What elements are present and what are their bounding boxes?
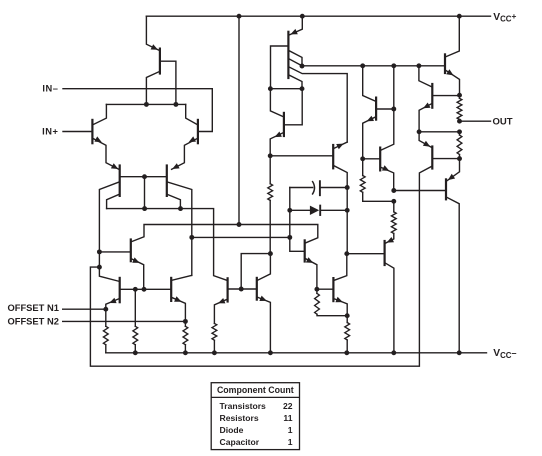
- node J20: [268, 251, 273, 256]
- wire Q1 emitter: [93, 138, 119, 169]
- wire Q17 base: [363, 158, 379, 160]
- wire VCC+ rail: [146, 15, 490, 17]
- wire OUT lead: [460, 120, 491, 122]
- wire Q20 collector loop: [90, 167, 431, 367]
- resistor R4: [212, 323, 217, 352]
- emitter arrow Q17: [382, 165, 389, 171]
- wire Q3-Q4 base tie: [121, 176, 166, 178]
- emitter arrow Q8: [151, 44, 158, 50]
- resistor R10: [457, 132, 462, 159]
- wire Q22 collector: [386, 263, 394, 353]
- wire Q7 collector: [132, 225, 318, 243]
- wire cap column: [290, 188, 304, 252]
- node J38: [457, 119, 462, 124]
- capacitor C1: [312, 181, 320, 195]
- svg-text:VCC–: VCC–: [493, 348, 516, 360]
- node J13: [268, 86, 273, 91]
- node J23: [345, 208, 350, 213]
- emitter arrow Q18: [423, 103, 430, 109]
- transistor Q22: [384, 241, 386, 265]
- wire Q22 base: [347, 253, 384, 255]
- node J18: [416, 63, 421, 68]
- emitter arrow Q11: [259, 296, 266, 301]
- node J25: [300, 14, 305, 19]
- wire VCC+ drop: [238, 16, 240, 224]
- node J9: [142, 287, 147, 292]
- wire Q8 emitter: [146, 16, 159, 50]
- wire base drop: [144, 177, 146, 209]
- wire Q12 emitter: [270, 133, 283, 156]
- wire Q7 emitter: [132, 259, 144, 289]
- emitter arrow Q1: [94, 136, 101, 142]
- wire Q3 collector: [99, 182, 118, 267]
- wire Q18 collector: [419, 66, 431, 87]
- wire Q16 base: [377, 108, 394, 110]
- node J5: [178, 206, 183, 211]
- node J47: [391, 350, 396, 355]
- node J31: [344, 251, 349, 256]
- transistor Q11: [256, 278, 258, 300]
- wire bias tie: [241, 254, 270, 289]
- wire Q4 base lead: [168, 195, 181, 209]
- node J19: [268, 153, 273, 158]
- wire D1 anode lead: [290, 209, 310, 211]
- resistor R2: [183, 321, 188, 352]
- emitter arrow Q21: [448, 174, 455, 180]
- wire C1 left lead: [290, 187, 313, 189]
- emitter arrow Q9: [290, 29, 297, 35]
- node J40: [417, 129, 422, 134]
- resistor R1: [103, 309, 108, 353]
- wire Q3 base lead: [107, 195, 119, 209]
- emitter arrow Q13: [336, 144, 343, 150]
- diode D1: [310, 206, 320, 215]
- wire Q8 collector: [146, 72, 159, 105]
- transistor Q4: [166, 166, 168, 196]
- node J3: [142, 174, 147, 179]
- wire Q16 emitter: [363, 117, 375, 159]
- wire Q13 emitter: [334, 142, 347, 148]
- node J28: [189, 235, 194, 240]
- node J7: [97, 265, 102, 270]
- wire Q20 base: [433, 158, 459, 160]
- node OUT label: [493, 116, 513, 127]
- wire Q10 emitter: [214, 300, 226, 324]
- transistor Q15: [332, 278, 334, 301]
- svg-text:VCC+: VCC+: [493, 11, 516, 23]
- node J43: [183, 350, 188, 355]
- node J26: [457, 14, 462, 19]
- wire Q19 collector: [446, 16, 459, 56]
- node J21: [345, 185, 350, 190]
- wire D1 cathode lead: [320, 209, 347, 211]
- svg-text:OFFSET N2: OFFSET N2: [8, 316, 59, 326]
- wire Q9 collector 4: [290, 75, 303, 88]
- transistor Q1: [91, 120, 93, 143]
- power VCC+ label: [493, 11, 516, 23]
- node J22: [287, 208, 292, 213]
- transistor Q19: [444, 54, 446, 73]
- wire mid column: [346, 188, 348, 254]
- node J44: [212, 350, 217, 355]
- transistor Q17: [379, 148, 381, 171]
- wire J13-J14: [270, 88, 302, 90]
- wire Q12 base: [285, 89, 302, 125]
- wire Q21 base: [394, 190, 445, 192]
- emitter arrow Q10: [218, 298, 225, 303]
- svg-text:IN–: IN–: [42, 84, 58, 94]
- node J37: [457, 93, 462, 98]
- wire Q17 emitter: [381, 168, 393, 191]
- wire C1 right lead: [321, 187, 347, 189]
- wire Q9 emitter: [290, 16, 303, 35]
- transistor Q5: [119, 278, 121, 302]
- transistor Q9: [287, 32, 289, 78]
- node J48: [457, 350, 462, 355]
- svg-text:Capacitor: Capacitor: [220, 437, 260, 447]
- wire Q9 collector 2: [290, 59, 303, 66]
- wire Q1 collector: [93, 104, 107, 124]
- emitter arrow Q14: [306, 257, 313, 263]
- wire Q2 collector: [186, 104, 198, 124]
- emitter arrow Q6: [174, 296, 181, 301]
- wire IN+ lead: [63, 131, 91, 133]
- wire VCC- rail: [106, 352, 487, 354]
- wire Q9 collector 1: [290, 51, 303, 66]
- wire Q11 collector: [258, 254, 271, 281]
- emitter arrow Q12: [275, 132, 282, 138]
- wire Q8 base: [161, 61, 176, 104]
- node J15: [300, 64, 305, 69]
- node J39: [457, 129, 462, 134]
- node J27: [237, 222, 242, 227]
- table component count: [211, 383, 299, 450]
- transistor Q2: [197, 120, 199, 143]
- node J30: [314, 287, 319, 292]
- node J12: [239, 287, 244, 292]
- wire Q15 emitter: [335, 299, 348, 316]
- node J33: [391, 107, 396, 112]
- node J6: [97, 249, 102, 254]
- wire Q18 base: [433, 95, 459, 97]
- node J32: [345, 313, 350, 318]
- transistor Q7: [130, 240, 132, 262]
- node OFFSET N1 label: [8, 303, 59, 313]
- resistor R8: [360, 159, 394, 202]
- node IN- label: [42, 84, 58, 94]
- svg-text:Resistors: Resistors: [220, 413, 259, 423]
- transistor Q6: [170, 278, 172, 301]
- wire Q21 emitter: [447, 159, 459, 181]
- transistor Q18: [431, 84, 433, 108]
- wire Q2 emitter: [172, 138, 198, 169]
- wire Q7 base: [99, 251, 129, 253]
- wire Q16 collector: [363, 66, 375, 101]
- transistor Q13: [332, 145, 334, 168]
- wire Q6 collector: [172, 275, 192, 280]
- svg-text:22: 22: [283, 401, 293, 411]
- wire bias line: [302, 65, 444, 67]
- wire Q18 emitter: [419, 104, 431, 132]
- node IN+ label: [42, 126, 58, 136]
- resistor R7: [315, 289, 348, 316]
- emitter arrow Q5: [109, 298, 116, 303]
- node J24: [237, 14, 242, 19]
- transistor Q8: [159, 49, 161, 74]
- node J10: [103, 307, 108, 312]
- emitter arrow Q20: [423, 141, 430, 147]
- node OFFSET N2 label: [8, 316, 59, 326]
- wire out row: [419, 131, 459, 133]
- node J2: [173, 102, 178, 107]
- svg-text:11: 11: [283, 413, 292, 423]
- svg-text:IN+: IN+: [42, 126, 58, 136]
- wire gain feed: [192, 236, 290, 238]
- node J4: [142, 206, 147, 211]
- svg-text:1: 1: [288, 437, 293, 447]
- transistor Q20: [431, 147, 433, 169]
- node J35: [391, 188, 396, 193]
- transistor Q3: [119, 166, 121, 196]
- wire Q9 collector 3: [290, 67, 348, 142]
- wire Q1-Q2 collector tie: [106, 103, 185, 105]
- wire IN- lead: [63, 89, 212, 132]
- node J8: [133, 287, 138, 292]
- wire OFFSET N2 lead: [63, 320, 186, 322]
- wire Q15 collector: [335, 254, 347, 281]
- wire Q4 collector: [168, 182, 192, 275]
- node J46: [344, 350, 349, 355]
- wire mirror rail: [107, 209, 227, 281]
- resistor R9: [457, 95, 462, 121]
- wire Q20 emitter: [419, 132, 431, 147]
- node J29: [287, 235, 292, 240]
- wire Q6 emitter: [172, 298, 185, 322]
- svg-text:1: 1: [288, 425, 293, 435]
- wire Q13 base: [270, 155, 332, 157]
- power VCC- label: [493, 348, 516, 360]
- resistor R11: [386, 201, 397, 243]
- emitter arrow Q15: [335, 297, 342, 303]
- wire OFFSET N1 lead: [63, 308, 106, 310]
- emitter arrow Q7: [132, 257, 139, 263]
- svg-text:Transistors: Transistors: [220, 401, 267, 411]
- wire Q21 collector: [447, 198, 459, 353]
- wire Q15 base: [317, 288, 332, 290]
- emitter arrow Q2: [189, 136, 196, 142]
- emitter arrow Q4-in: [172, 163, 179, 169]
- wire Q19 emitter: [446, 71, 459, 96]
- wire Q12 collector: [270, 89, 282, 117]
- emitter arrow Q19: [446, 69, 453, 75]
- node J45: [268, 350, 273, 355]
- wire Q9 base: [271, 46, 288, 89]
- emitter arrow Q3-in: [111, 163, 118, 169]
- node J34: [360, 156, 365, 161]
- transistor Q16: [375, 98, 377, 120]
- transistor Q10: [227, 278, 229, 301]
- emitter arrow Q22: [387, 237, 394, 243]
- wire Q13 collector: [334, 166, 347, 188]
- wire Q17 collector: [381, 66, 394, 150]
- svg-text:Component Count: Component Count: [217, 385, 294, 395]
- wire Q5 collector: [99, 267, 118, 281]
- wire Q11 emitter: [258, 297, 271, 352]
- node J16: [360, 63, 365, 68]
- wire Q10 base tie: [229, 288, 256, 290]
- transistor Q21: [445, 179, 447, 199]
- wire Q14 emitter: [306, 259, 317, 289]
- resistor R6: [345, 316, 350, 353]
- node J41: [457, 156, 462, 161]
- wire Q5-Q6 base tie: [121, 288, 170, 290]
- node J1: [144, 102, 149, 107]
- node J42: [133, 350, 138, 355]
- resistor R3: [133, 289, 138, 353]
- node J36: [391, 199, 396, 204]
- emitter arrow Q16: [367, 116, 374, 122]
- transistor Q14: [304, 240, 306, 261]
- node J14: [300, 86, 305, 91]
- wire Q5 emitter: [106, 299, 119, 309]
- node J11: [183, 319, 188, 324]
- svg-text:Diode: Diode: [220, 425, 244, 435]
- svg-text:OFFSET N1: OFFSET N1: [8, 303, 59, 313]
- node J17: [391, 63, 396, 68]
- resistor R5: [268, 156, 273, 254]
- svg-text:OUT: OUT: [493, 116, 513, 127]
- transistor Q12: [283, 113, 285, 136]
